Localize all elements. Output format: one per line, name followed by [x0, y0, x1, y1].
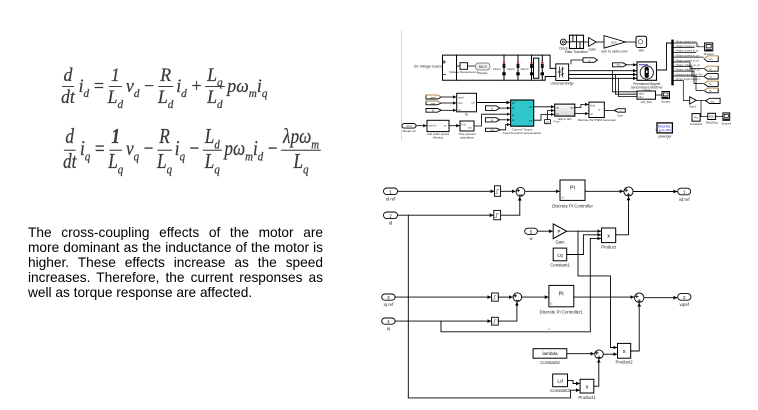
PI block Discrete PI Controller1 — [540, 285, 584, 314]
svg-text:Vabc: Vabc — [638, 92, 644, 96]
power circuit outer box — [443, 55, 556, 80]
three phase wires bridge to PMSM — [569, 70, 637, 72]
goto tag wm — [704, 56, 718, 62]
svg-text:Scope4: Scope4 — [722, 122, 732, 126]
svg-text:the: the — [710, 99, 714, 103]
wire w to Gain — [537, 230, 552, 232]
wire Product2 to Sum2b — [631, 303, 640, 351]
inport 3 iq ref — [382, 294, 395, 307]
wire PMSM to bus selector — [657, 43, 672, 70]
universal bridge — [551, 64, 575, 86]
bus signal name labels — [675, 39, 703, 81]
svg-text:iq*: iq* — [512, 101, 515, 105]
svg-text:Discrete PI Controller: Discrete PI Controller — [552, 204, 593, 209]
wire filter to torq block — [449, 125, 459, 127]
sum junction Sum2a — [513, 293, 522, 302]
wire clock to rate block — [566, 41, 569, 43]
wire Sum1b to vd ref — [633, 191, 677, 193]
wire Ld to Product1 input1 — [568, 380, 580, 383]
svg-text:<Stator current is_q>: <Stator current is_q> — [675, 53, 700, 57]
svg-text:rpm: rpm — [611, 41, 617, 45]
svg-text:wref in: wref in — [429, 123, 437, 127]
speed filter block — [427, 120, 449, 139]
speed display block — [636, 36, 647, 52]
wire Product1 to Sum3 — [594, 359, 599, 386]
svg-text:Goto: Goto — [617, 113, 623, 117]
svg-text:Iabc: Iabc — [638, 95, 644, 99]
bus selector bar — [671, 40, 673, 86]
wire Product to Sum1b — [616, 197, 629, 235]
wire to gain tri1 — [584, 41, 589, 43]
constant block Pv — [690, 114, 703, 126]
wire iq to RT4 — [395, 320, 491, 322]
svg-text:Discrete SV PWM Generator: Discrete SV PWM Generator — [578, 118, 616, 122]
svg-text:Rate Transition: Rate Transition — [565, 50, 588, 54]
svg-text:x: x — [623, 349, 626, 355]
svg-text:iq: iq — [387, 326, 391, 331]
wire lambda to Sum3 — [567, 353, 594, 355]
equation 2: d/dt iq — [63, 129, 321, 170]
wire iq branch to Product input3 — [441, 238, 601, 331]
wire iq ref to RT3 — [395, 296, 491, 298]
filter branch 4 loop — [534, 55, 545, 80]
svg-text:calculation: calculation — [460, 135, 475, 139]
svg-text:wt: wt — [590, 112, 593, 116]
goto tag g2 (left point) — [614, 109, 625, 118]
svg-text:id: id — [389, 221, 393, 226]
measurement taps down to abc block — [613, 71, 637, 92]
product block Product1 — [578, 379, 596, 400]
clock — [559, 39, 568, 50]
constant block lambda Constant2 — [533, 349, 567, 366]
svg-text:w: w — [512, 119, 514, 122]
constant block Lq Constant1 — [550, 248, 570, 267]
svg-text:<Rotor angle thetam>: <Rotor angle thetam> — [675, 77, 701, 81]
svg-text:Constant3: Constant3 — [550, 388, 570, 393]
wire abc block to scope5 — [656, 94, 662, 96]
svg-text:Product: Product — [601, 245, 617, 250]
teal feedforward block — [503, 100, 542, 135]
inport 5 w — [525, 228, 538, 241]
inner divider — [456, 55, 458, 80]
dq to abc gradient block — [555, 104, 575, 121]
DC source symbol — [443, 61, 446, 75]
wire to gain tri2 — [596, 41, 603, 43]
product block Product — [601, 228, 617, 250]
svg-text:dq0 to abc: dq0 to abc — [558, 117, 573, 121]
rate transition RT3 — [492, 293, 499, 301]
goto tag id — [704, 74, 718, 79]
inport 2 id — [384, 212, 398, 226]
svg-text:Rad2Deg: Rad2Deg — [706, 120, 718, 124]
svg-text:x: x — [607, 233, 610, 239]
goto tag theta e — [706, 98, 720, 103]
svg-text:wm: wm — [431, 101, 436, 105]
gain triangle Gain — [553, 224, 567, 245]
sum junction Sum1a — [516, 187, 525, 196]
rad2deg block — [706, 113, 718, 124]
wire RT3 to Sum2a — [498, 296, 512, 298]
svg-text:Universal Bridge: Universal Bridge — [551, 82, 575, 86]
svg-text:wref: wref — [406, 124, 412, 128]
svg-text:wm: wm — [708, 57, 713, 61]
svg-text:abc: abc — [570, 105, 575, 109]
equation 1: d/dt id — [61, 68, 268, 105]
gain triangle rad conversion — [689, 97, 697, 109]
svg-text:lambda: lambda — [542, 351, 558, 356]
svg-text:iq ref: iq ref — [384, 302, 394, 307]
wire Pv to rad2deg — [700, 116, 707, 118]
svg-text:P: P — [599, 108, 601, 112]
inport 4 iq — [382, 318, 395, 331]
wire RT4 up to Sum2a — [498, 302, 517, 321]
wire to scope block — [625, 41, 635, 43]
PWM generator block — [578, 102, 616, 122]
svg-text:9: 9 — [562, 196, 564, 200]
svg-text:out: out — [468, 125, 472, 129]
svg-text:filtering: filtering — [433, 136, 443, 140]
rate transition RT1 — [495, 186, 501, 197]
constant block Ld Constant3 — [550, 374, 570, 393]
outport 2 vqref — [678, 294, 691, 308]
svg-text:w: w — [529, 236, 533, 241]
svg-text:Constant2: Constant2 — [540, 360, 560, 365]
speed ref source oval — [402, 124, 416, 134]
svg-text:vqref: vqref — [680, 302, 690, 307]
wire id branch down — [407, 215, 409, 398]
svg-text:wm: wm — [458, 101, 463, 105]
svg-text:Display: Display — [478, 71, 488, 75]
svg-text:Tm: Tm — [616, 63, 621, 67]
goto tag iq — [704, 66, 718, 71]
svg-text:x: x — [586, 384, 589, 390]
scope4 block — [722, 113, 732, 126]
svg-text:Lq: Lq — [557, 252, 563, 258]
from tag theta small — [544, 120, 559, 124]
svg-text:id ref: id ref — [386, 197, 396, 202]
svg-text:Voltage Measurement: Voltage Measurement — [449, 70, 478, 74]
gain triangle long — [601, 36, 627, 54]
voltage measurement block — [449, 63, 478, 74]
svg-text:DC Voltage Source: DC Voltage Source — [414, 65, 442, 69]
svg-text:Ld: Ld — [557, 378, 563, 384]
wire id to RT2 with branch node — [398, 214, 493, 216]
svg-text:<Stator current is_a>: <Stator current is_a> — [675, 44, 700, 48]
from tag id2 — [426, 109, 441, 113]
sum junction Sum3 — [595, 350, 604, 359]
svg-text:Speed ref: Speed ref — [402, 129, 415, 133]
svg-text:<Stator current is_b>: <Stator current is_b> — [675, 49, 700, 53]
goto tag Te — [704, 81, 718, 87]
svg-text:≡: ≡ — [548, 328, 550, 332]
svg-text:Feed Forward compensation: Feed Forward compensation — [503, 131, 542, 135]
wire PI2 to Sum2b — [574, 296, 634, 298]
powergui block — [655, 123, 674, 139]
svg-text:Scope1: Scope1 — [661, 99, 671, 103]
wire Sum3 to Product2 input2 — [603, 353, 616, 355]
from tag vd — [486, 106, 500, 111]
rate/grid block — [565, 35, 588, 54]
svg-text:Scope3: Scope3 — [704, 52, 715, 56]
wire RT1 to Sum1a — [501, 190, 516, 192]
svg-text:<Stator current is_d>: <Stator current is_d> — [675, 58, 700, 62]
torq setpoint block — [458, 121, 475, 139]
filter branch 2 — [507, 55, 520, 80]
bus output wires with labels — [674, 43, 705, 100]
PI block Discrete PI Controller — [552, 180, 593, 209]
wire id ref to RT1 — [398, 190, 494, 192]
svg-text:Uref: Uref — [590, 104, 595, 108]
wire RT2 up to Sum1a — [501, 197, 520, 215]
svg-text:560.5: 560.5 — [479, 65, 487, 69]
svg-text:w in: w in — [461, 122, 466, 126]
wire bridge top to goto tag — [571, 60, 583, 64]
svg-text:Pv: Pv — [694, 116, 698, 120]
svg-text:Filter3: Filter3 — [521, 67, 529, 71]
product block Product2 — [615, 343, 633, 364]
wires dq2abc to pwm — [575, 104, 588, 107]
svg-text:PI: PI — [570, 186, 575, 192]
goto tag g — [583, 58, 598, 63]
rate transition RT2 — [494, 210, 501, 219]
svg-text:Gain: Gain — [588, 48, 595, 52]
svg-text:Filter1: Filter1 — [493, 67, 501, 71]
svg-text:Filter2: Filter2 — [507, 67, 515, 71]
filter branch 1 — [493, 55, 506, 80]
wire Lq to Product input2 — [567, 235, 601, 255]
svg-text:P: P — [558, 229, 561, 234]
diagram left border (faint) — [401, 31, 403, 140]
svg-text:wm: wm — [639, 49, 644, 53]
svg-text:Ts = 2e-006 s.: Ts = 2e-006 s. — [655, 128, 674, 132]
wires from tags to speed PI — [441, 96, 456, 98]
wire Sum1a to PI1 — [525, 190, 559, 192]
svg-text:PI: PI — [559, 291, 564, 297]
svg-text:w: w — [444, 124, 446, 127]
svg-text:wref: wref — [430, 95, 436, 99]
scope5 block — [661, 92, 671, 104]
svg-text:wt: wt — [556, 112, 559, 116]
svg-text:Vdc_Bus: Vdc_Bus — [641, 100, 653, 104]
svg-text:Gain2: Gain2 — [689, 105, 697, 109]
svg-text:<Rotor speed wm>: <Rotor speed wm> — [675, 39, 697, 43]
wire from tag to PMSM — [627, 64, 637, 66]
sum junction Sum1b — [624, 187, 633, 196]
wire torq block up to teal — [474, 114, 510, 126]
svg-text:<Electromag torque Te>: <Electromag torque Te> — [675, 72, 703, 76]
wire gain output branch down — [700, 100, 702, 116]
svg-text:wref: wref — [458, 95, 464, 99]
svg-text:vd ref: vd ref — [679, 197, 691, 202]
paragraph — [28, 225, 323, 300]
rate transition RT4 — [492, 317, 499, 325]
svg-text:Product2: Product2 — [615, 360, 633, 365]
svg-text:Product1: Product1 — [578, 395, 596, 400]
goto tag theta — [704, 88, 718, 93]
from tag wm ref — [426, 95, 441, 104]
wire pwm to goto g — [604, 110, 613, 112]
svg-text:Constant1: Constant1 — [550, 262, 570, 267]
display readout — [476, 63, 491, 75]
wire Gain to Product input1 — [567, 230, 601, 232]
wire divider to vm block — [457, 65, 476, 67]
wire Sum2b to vqref — [644, 297, 677, 299]
wire Sum2a to PI2 — [522, 296, 548, 298]
wire id feedback to Product1 — [408, 390, 579, 398]
svg-text:Gain: Gain — [555, 240, 565, 245]
from tag iq — [486, 118, 500, 122]
svg-text:<Stator voltage vs_q>: <Stator voltage vs_q> — [675, 63, 701, 67]
svg-text:Te: Te — [709, 82, 712, 86]
inport 1 id ref — [384, 188, 398, 202]
svg-text:PI: PI — [465, 113, 468, 117]
svg-text:9: 9 — [550, 302, 552, 306]
wire rad2deg to scope4 — [716, 116, 723, 118]
PMSM block — [631, 62, 663, 93]
wire speed PI to teal block — [477, 102, 510, 104]
filter branch 3 — [521, 55, 534, 80]
from tag Tm — [613, 63, 627, 67]
from tag wm2 — [486, 128, 501, 132]
gain triangle small — [588, 38, 596, 52]
svg-text:wm: wm — [490, 128, 495, 132]
wire to speed filter — [416, 125, 426, 127]
svg-text:R2D: R2D — [709, 115, 715, 119]
teal outputs to dq2abc — [534, 106, 554, 108]
outport 1 vd ref — [678, 188, 691, 202]
from tag wm — [426, 101, 441, 105]
svg-text:Constant4: Constant4 — [690, 122, 703, 126]
speed PI block — [457, 93, 477, 117]
wire gain to tag — [696, 99, 705, 101]
wire PI1 to Sum1b — [585, 190, 623, 192]
svg-text:powergui: powergui — [658, 135, 671, 139]
sum junction Sum2b — [635, 293, 644, 302]
wire w branch down to Product2 input1 — [578, 231, 617, 347]
svg-text:rpm to rad/s conv: rpm to rad/s conv — [601, 49, 627, 53]
abc measurement block below PMSM — [637, 91, 656, 104]
scope3 block — [704, 43, 715, 56]
svg-text:Discrete PI Controller1: Discrete PI Controller1 — [540, 310, 584, 315]
svg-text:<Stator voltage vs_d>: <Stator voltage vs_d> — [675, 67, 701, 71]
